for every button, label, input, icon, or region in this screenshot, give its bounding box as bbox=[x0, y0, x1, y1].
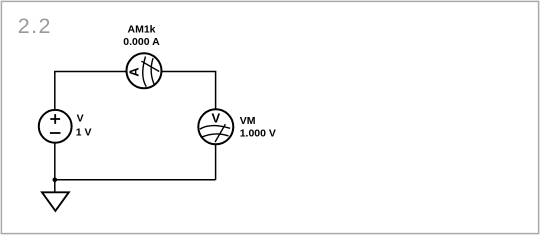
svg-text:V: V bbox=[211, 111, 220, 126]
svg-text:0.000 A: 0.000 A bbox=[123, 36, 160, 48]
svg-text:V: V bbox=[77, 113, 84, 125]
svg-text:1.000 V: 1.000 V bbox=[240, 127, 276, 139]
svg-text:A: A bbox=[127, 67, 142, 77]
svg-text:2.2: 2.2 bbox=[18, 14, 52, 38]
svg-text:AM1k: AM1k bbox=[127, 24, 155, 36]
svg-text:VM: VM bbox=[240, 115, 256, 127]
svg-text:1 V: 1 V bbox=[76, 126, 92, 138]
